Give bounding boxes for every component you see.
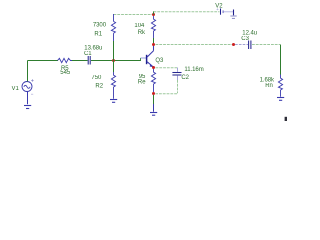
- wire Rk to collector node: [153, 38, 155, 45]
- wire R1 to base node: [113, 41, 115, 61]
- battery V2: [217, 8, 234, 14]
- resistor Rn: [278, 75, 282, 97]
- source V1: [22, 79, 34, 94]
- svg-text:104: 104: [134, 23, 145, 29]
- wire V1 top vertical: [27, 61, 29, 82]
- resistor R2: [111, 72, 115, 99]
- wire V1 bottom vertical: [27, 92, 29, 105]
- svg-text:Re: Re: [138, 80, 146, 86]
- wire node to C3 dashed: [235, 44, 248, 46]
- svg-text:11.16m: 11.16m: [184, 67, 203, 73]
- node base junction: [112, 59, 115, 62]
- corner mark: [285, 117, 287, 121]
- transistor Q3: [141, 45, 154, 67]
- wire rail jog: [153, 11, 155, 14]
- wire C1 to base: [91, 60, 141, 62]
- svg-text:C3: C3: [241, 36, 249, 42]
- wire rail top-left dashed: [114, 14, 153, 16]
- capacitor C3: [249, 41, 251, 50]
- wire collector output dashed: [156, 44, 233, 46]
- resistor R5: [58, 58, 73, 62]
- node rail junction: [152, 13, 155, 16]
- wire base node to R2: [113, 61, 115, 73]
- node emitter: [152, 66, 155, 69]
- capacitor C1: [88, 56, 90, 65]
- svg-text:V1: V1: [12, 86, 20, 92]
- ground RL: [277, 98, 284, 101]
- svg-text:Q3: Q3: [155, 58, 164, 64]
- wire R5 to C1: [72, 60, 88, 62]
- svg-text:Rn: Rn: [265, 83, 273, 89]
- svg-text:C2: C2: [181, 75, 189, 81]
- svg-text:545: 545: [60, 70, 71, 76]
- ground V1: [24, 106, 31, 109]
- svg-text:V2: V2: [215, 3, 223, 9]
- svg-text:750: 750: [91, 75, 102, 81]
- svg-text:7300: 7300: [93, 23, 107, 29]
- node output: [232, 43, 235, 46]
- node collector: [152, 43, 155, 46]
- resistor R1: [111, 14, 115, 41]
- wire RL top vertical: [280, 45, 282, 75]
- svg-text:R2: R2: [95, 84, 103, 90]
- resistor Re: [151, 69, 155, 92]
- wire C3 to RL dashed: [252, 44, 280, 46]
- wire C2 bottom dashed: [156, 80, 178, 94]
- svg-text:Rk: Rk: [138, 30, 146, 36]
- wire to ground: [153, 95, 155, 104]
- resistor Rk: [151, 16, 155, 38]
- wire V1 to R5: [28, 60, 59, 62]
- svg-text:C1: C1: [84, 51, 92, 57]
- ground R2: [110, 100, 117, 103]
- wire rail top-right dashed: [154, 11, 220, 13]
- svg-text:R1: R1: [94, 31, 102, 37]
- wire emitter to C2 dashed: [156, 67, 178, 69]
- node emitter bottom: [152, 92, 155, 95]
- ground emitter: [150, 104, 157, 115]
- capacitor C2: [172, 68, 181, 81]
- ground V2: [230, 10, 236, 19]
